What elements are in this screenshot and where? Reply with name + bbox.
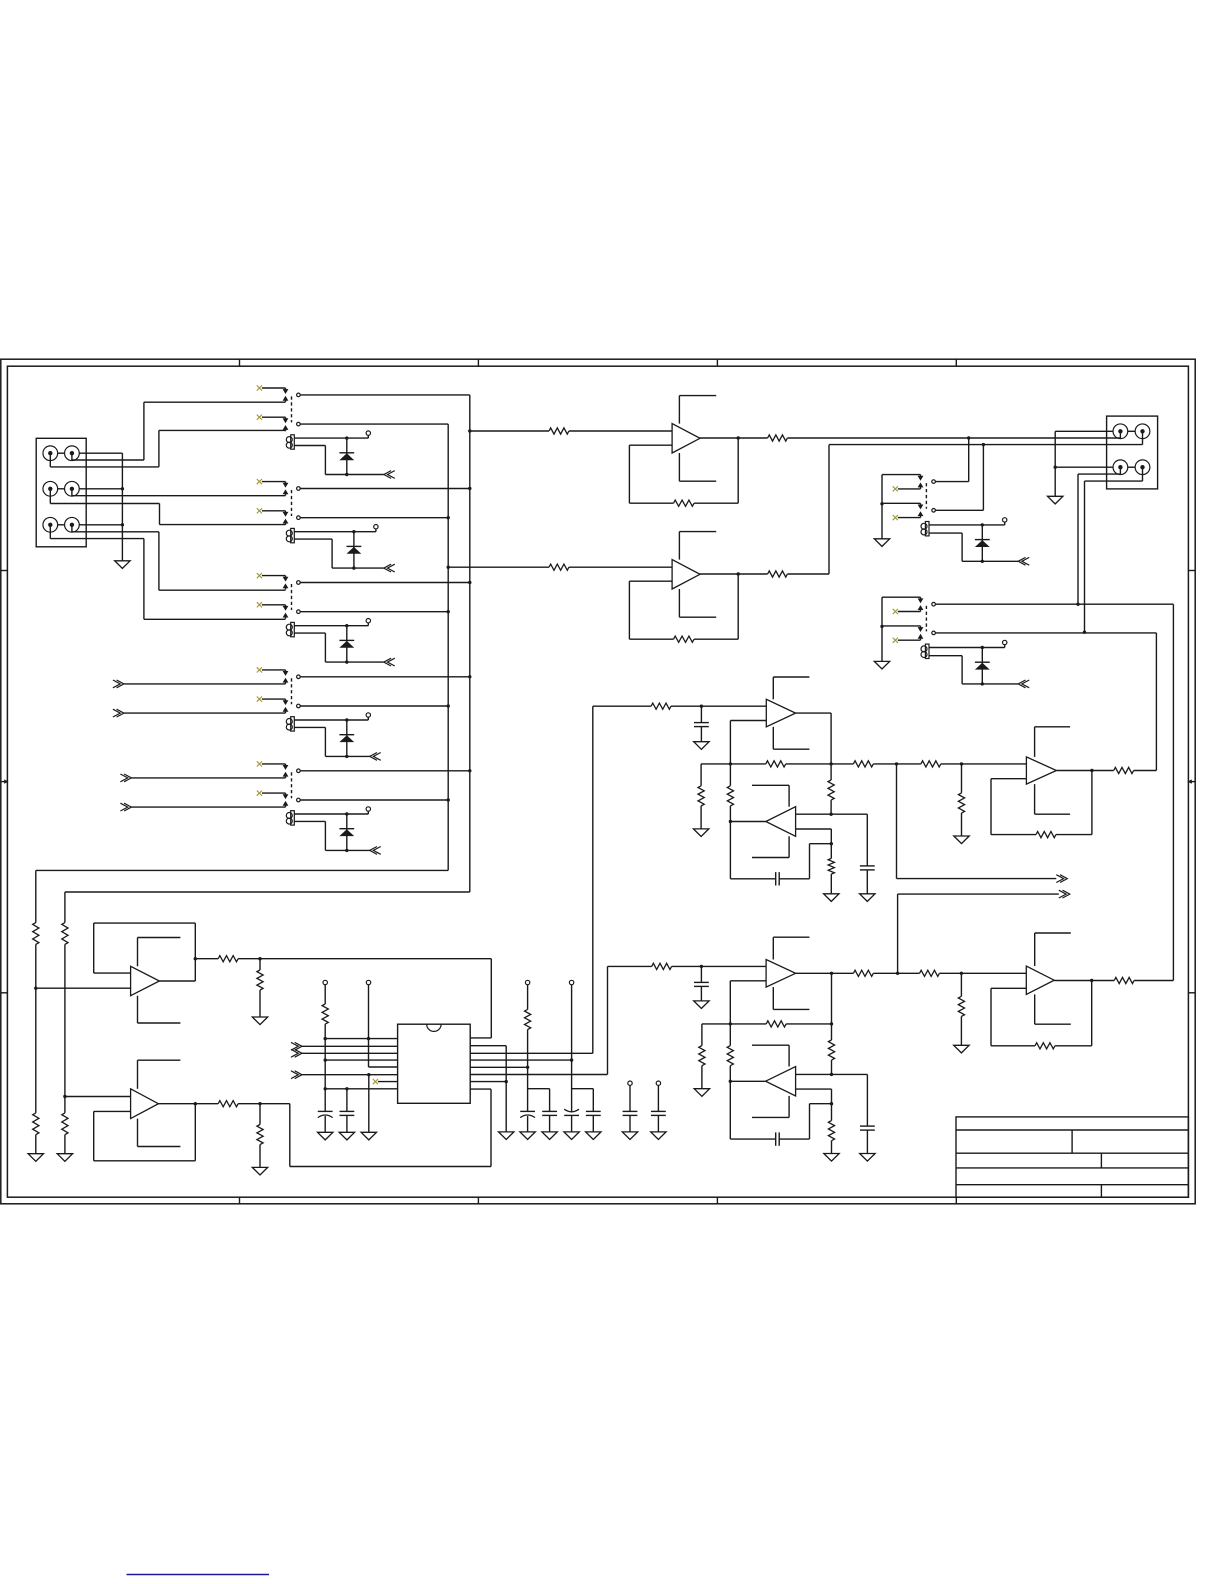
connector J2 body — [1107, 416, 1158, 489]
capacitor C rail L1 — [318, 1111, 333, 1132]
resistor R-f1 mid leg — [828, 764, 834, 816]
wire K5 c1 to bus A — [300, 769, 471, 772]
U4A feedback loop — [991, 769, 1094, 835]
relay K6 contact 1 common — [932, 480, 936, 484]
relay K7 contact 1 arrows — [918, 598, 924, 611]
no-connect X mark K4 contact 2 — [257, 697, 286, 702]
port >> upper out A — [897, 764, 1068, 883]
relay K7 contact 1 common — [932, 602, 936, 606]
connector J1 jack pair row 1 — [43, 446, 79, 461]
U4A power stub bottom — [1035, 784, 1071, 814]
wire U6A out to bus — [1134, 980, 1173, 982]
resistor R-f1 shunt — [958, 764, 964, 836]
U2 power stub top — [679, 532, 716, 560]
resistor R-U8 out — [218, 1101, 238, 1107]
no-connect X mark K6 contact 2 — [893, 515, 921, 520]
capacitor C5 — [623, 1111, 638, 1132]
U6A feedback loop — [991, 979, 1093, 1046]
U7 feedback loop — [94, 923, 197, 981]
diode D1 — [339, 438, 354, 474]
resistor R-f2 mid leg — [828, 1024, 834, 1076]
wire K2 c2 to bus B — [300, 516, 450, 519]
wire J1 row3 ring feed — [50, 525, 285, 620]
hyperlink underline — [127, 1574, 270, 1576]
U8 power stub top — [138, 1060, 181, 1089]
lower filter node row — [702, 1023, 832, 1025]
wire K6 coil top — [929, 522, 1005, 527]
wire J2 row2 left out — [1076, 467, 1120, 606]
resistor R-f1 c — [921, 761, 941, 767]
ground symbol K6 bus — [874, 539, 889, 547]
wire K1 c1 to bus A — [300, 394, 470, 396]
port >> upper out B — [898, 890, 1070, 973]
relay K2 contact 1 common — [297, 487, 301, 491]
wire IC r1 — [470, 1037, 491, 1039]
frame centre arrow left — [1, 779, 9, 783]
ground symbol C5 — [622, 1132, 637, 1140]
resistor R-U1 fb — [674, 500, 695, 506]
capacitor C3 decouple — [564, 1109, 579, 1132]
capacitor C6 — [651, 1111, 666, 1132]
relay K6 ganged link dashed — [925, 483, 927, 509]
frame centre arrow right — [1187, 779, 1195, 783]
wire IC r8 — [470, 1088, 491, 1090]
bus B vertical — [447, 424, 450, 870]
resistor R-f2 b — [853, 970, 873, 976]
ground symbol f1 shunt — [954, 836, 969, 844]
relay K7 contact 2 common — [932, 631, 936, 635]
wire IC r4 — [470, 1058, 573, 1061]
relay K1 contact 2 common — [297, 422, 301, 426]
no-connect X mark K3 contact 1 — [257, 573, 286, 578]
resistor R-f1 in — [651, 703, 671, 709]
port >> IC p2 — [291, 1042, 398, 1050]
wire J1 row1 to ground bus — [79, 452, 122, 454]
net U2-out to J2 — [787, 443, 1142, 574]
U7 power stub bottom — [138, 996, 181, 1023]
frame zone tick marks — [1, 359, 1195, 1204]
ground symbol K7 bus — [874, 661, 889, 669]
resistor R-U6A out — [1114, 977, 1134, 983]
terminal rail L1 — [323, 980, 327, 1004]
wire IC r7 — [470, 1081, 506, 1083]
wire K7 contact 2 feed — [882, 626, 921, 629]
port >> K5 c2 input — [120, 803, 285, 811]
ground symbol rail L2 — [361, 1132, 376, 1140]
diode D6 — [975, 525, 990, 561]
ground symbol C-f1 — [694, 742, 709, 750]
op-amp U7 — [131, 966, 160, 995]
bus A route to lower left — [65, 892, 470, 923]
relay coil K7 — [921, 644, 929, 658]
wire U3A out — [796, 713, 833, 766]
U2 power stub bottom — [679, 589, 716, 617]
U8 power stub bottom — [138, 1119, 181, 1147]
U8 feedback loop — [94, 1102, 197, 1161]
no-connect X IC p7 — [373, 1079, 398, 1084]
wire U8 out — [158, 1103, 218, 1105]
wire bus B to U2 — [448, 566, 549, 568]
wire J1 row1 tip feed — [72, 402, 286, 460]
wire to U7 +in — [36, 987, 131, 989]
wire to f2 opA +in — [672, 965, 767, 968]
resistor R rail R1 — [525, 1009, 531, 1029]
K7 input bus — [880, 597, 883, 661]
wire J2 row1 stem left — [1119, 431, 1121, 438]
wire IC p4 — [324, 1058, 398, 1061]
U3A power stub bottom — [773, 727, 809, 749]
wire J1 row2 tip feed — [72, 489, 286, 496]
relay coil K4 — [286, 717, 294, 731]
relay K4 contact 1 common — [297, 675, 301, 679]
wire K5 c2 to bus B — [300, 798, 450, 801]
wire to U8 +in — [65, 1096, 131, 1098]
no-connect X mark K1 contact 2 — [257, 415, 286, 420]
op-amp U3B — [766, 807, 796, 837]
wire U4A out to bus — [1134, 770, 1157, 772]
op-amp U5B — [766, 1067, 796, 1096]
net U7 to IC pin1 — [260, 959, 491, 1038]
port << K3 coil- — [384, 658, 395, 666]
wire IC p6 riser to lower filter — [608, 966, 652, 1074]
wire K4 coil top — [294, 717, 368, 722]
relay K3 contact 1 arrows — [283, 577, 289, 590]
wire to f1 opA +in — [671, 705, 766, 708]
wire IC p1 (Vdd) — [324, 1037, 398, 1040]
wire IC r3 — [470, 1052, 593, 1054]
rail L1 vertical — [324, 1024, 326, 1111]
upper filter node row — [701, 762, 1026, 765]
wire K3 coil bottom — [294, 633, 384, 664]
ground symbol C-f2 +node — [860, 1154, 875, 1162]
resistor R-f2 tip leg — [727, 1024, 733, 1081]
ground symbol U7 shunt — [252, 1017, 267, 1025]
diode D2 — [347, 532, 362, 568]
port << K7 coil- — [1018, 680, 1029, 688]
port << K4 coil- — [370, 753, 381, 761]
port >> K4 c2 input — [113, 709, 286, 717]
wire f2 out-row link — [830, 973, 833, 1025]
resistor R-U7 shunt — [257, 959, 263, 1017]
wire bus A to U1 — [470, 430, 549, 432]
wire K6 c1 out — [935, 438, 968, 482]
U4A power stub top — [1035, 727, 1071, 757]
diode D5 — [339, 814, 354, 850]
U1 feedback loop — [629, 436, 740, 503]
port << K6 coil- — [1018, 557, 1029, 565]
resistor R-f1 a — [766, 761, 786, 767]
op-amp U6A — [1026, 966, 1054, 994]
bus B route to lower left — [36, 870, 448, 922]
relay K1 contact 2 arrows — [283, 418, 289, 431]
ground symbol f2 shunt — [954, 1045, 969, 1053]
terminal K5 coil+ — [366, 807, 370, 811]
no-connect X mark K7 contact 2 — [893, 638, 921, 643]
resistor R-U6A fb — [1035, 1043, 1055, 1049]
relay coil K2 — [286, 528, 294, 542]
U5A power stub bottom — [773, 987, 809, 1009]
U2 feedback loop — [629, 572, 740, 639]
wire U2 output — [700, 573, 768, 575]
wire K4 c1 to bus A — [300, 675, 471, 678]
wire J2 row2 ring bus — [1055, 466, 1113, 468]
wire J1 row1 ring feed — [50, 430, 285, 467]
ground symbol f2 left — [694, 1089, 709, 1097]
ground symbol bus B — [28, 1154, 43, 1162]
rail L2 ground leg — [368, 1075, 370, 1133]
connector J1 body — [36, 438, 86, 547]
wire J1 row3 to ground bus — [79, 524, 122, 526]
relay K6 contact 2 common — [932, 509, 936, 513]
wire U3B tip — [729, 820, 766, 823]
terminal K1 coil+ — [366, 431, 370, 435]
U3B power stub bottom — [752, 836, 789, 857]
wire K7 contact 1 feed — [882, 597, 921, 600]
wire J2 row1 stem right — [1142, 431, 1144, 444]
wire J2 row1 ring to bus — [1055, 430, 1113, 432]
connector J2 jack pair row 1 — [1113, 424, 1150, 439]
bus A vertical — [468, 395, 471, 892]
no-connect X mark K6 contact 1 — [893, 486, 921, 491]
port << K1 coil- — [384, 471, 395, 479]
wire K7 coil top — [929, 645, 1005, 650]
wire U1 output — [700, 437, 768, 439]
diode D4 — [339, 720, 354, 756]
capacitor C-f1 in — [694, 706, 709, 742]
relay K5 ganged link dashed — [291, 772, 293, 798]
resistor R-U2 out — [768, 571, 788, 577]
relay K7 ganged link dashed — [925, 606, 927, 632]
relay K3 contact 2 arrows — [283, 606, 289, 619]
wire K7 c1 out — [935, 603, 1173, 605]
capacitor C-f2 in — [694, 966, 709, 1001]
connector J1 jack pair row 2 — [43, 481, 79, 496]
ground symbol rail L1 — [318, 1132, 333, 1140]
wire IC r2 — [470, 1045, 506, 1047]
resistor R-U1 in — [549, 428, 569, 434]
terminal K7 coil+ — [1003, 640, 1007, 644]
op-amp U1 — [672, 424, 700, 453]
relay K3 ganged link dashed — [291, 584, 293, 610]
U7 power stub top — [138, 938, 181, 967]
relay coil K6 — [921, 522, 929, 536]
relay K2 ganged link dashed — [291, 490, 293, 516]
resistor R-U4A fb — [1036, 832, 1056, 838]
ground symbol f1 left — [693, 829, 708, 837]
J2 ground bus — [1054, 431, 1057, 496]
resistor R-f2 -leg — [828, 1104, 834, 1154]
terminal rail L2 — [366, 980, 370, 1067]
capacitor C1 decouple — [520, 1111, 535, 1132]
resistor R-U2 fb — [674, 636, 695, 642]
ground symbol J2 — [1048, 496, 1063, 504]
wire K6 c2 out — [935, 445, 983, 511]
wire U7 node — [238, 957, 262, 960]
wire K7 coil bottom — [929, 656, 1018, 686]
resistor R-U1 out — [768, 435, 788, 441]
bus A lower leg — [62, 923, 68, 1154]
relay K1 contact 1 common — [297, 393, 301, 397]
relay K5 contact 2 arrows — [283, 794, 289, 807]
op-amp U3A — [766, 699, 795, 727]
wire IC p8 — [324, 1087, 398, 1090]
port >> K5 c1 input — [120, 774, 285, 782]
terminal rail R2 — [569, 980, 593, 1111]
wire U3B -in — [796, 829, 833, 845]
relay coil K1 — [286, 435, 294, 449]
wire J2 row2 right out — [1083, 467, 1143, 634]
op-amp U8 — [131, 1089, 159, 1119]
capacitor C-f2 +node — [860, 1074, 875, 1153]
wire U5B +in — [796, 1073, 868, 1075]
relay K4 ganged link dashed — [291, 678, 293, 704]
wire K5 coil bottom — [294, 821, 369, 852]
capacitor C p8 — [340, 1089, 355, 1133]
relay K2 contact 2 arrows — [283, 512, 289, 525]
capacitor C-f1 +node — [860, 814, 875, 894]
wire U7 out — [195, 958, 218, 960]
ground symbol U8 shunt — [252, 1167, 267, 1175]
wire K4 c2 to bus B — [300, 704, 450, 707]
wire IC p5 — [369, 1066, 398, 1068]
wire U5A out — [796, 972, 964, 975]
terminal rail R1 — [525, 980, 529, 1009]
ground symbol C3 — [564, 1132, 579, 1140]
U5B power stub top — [752, 1045, 789, 1066]
bus right inner — [1155, 633, 1157, 771]
ground symbol C2 — [542, 1132, 557, 1140]
terminal K3 coil+ — [366, 619, 370, 623]
resistor R-f1 b — [853, 761, 873, 767]
capacitor C-f2 fb — [730, 1081, 831, 1146]
relay K2 contact 2 common — [297, 516, 301, 520]
diode D7 — [975, 648, 990, 684]
no-connect X mark K5 contact 2 — [257, 791, 286, 796]
resistor R rail L1 — [322, 1004, 328, 1024]
wire IC r6 — [470, 1074, 607, 1076]
wire U5B -in — [796, 1089, 834, 1105]
wire K1 coil top — [294, 435, 368, 440]
rail r2 ground leg — [505, 1046, 508, 1132]
relay K5 contact 1 common — [297, 769, 301, 773]
net U8 to IC pin8 — [290, 1089, 491, 1166]
wire R to U2 +in — [569, 566, 672, 568]
resistor R-U4A out — [1114, 767, 1134, 773]
relay K3 contact 1 common — [297, 581, 301, 585]
wire K6 contact 2 feed — [882, 503, 921, 506]
U6A power stub top — [1035, 933, 1071, 966]
ground symbol J1 bus — [115, 561, 130, 569]
no-connect X mark K1 contact 1 — [257, 385, 286, 390]
port << K5 coil- — [370, 847, 381, 855]
connector J2 jack pair row 2 — [1113, 460, 1150, 475]
wire R to U1 +in — [569, 430, 672, 432]
wire K3 coil top — [294, 623, 368, 628]
wire K3 c2 to bus B — [300, 610, 450, 613]
resistor R-U2 in — [549, 564, 569, 570]
no-connect X mark K2 contact 2 — [257, 508, 286, 513]
terminal K4 coil+ — [366, 713, 370, 717]
wire K2 coil bottom — [294, 539, 384, 570]
resistor R-f1 tip leg — [727, 764, 733, 822]
wire K6 contact 1 feed — [882, 475, 921, 478]
resistor R-f1 gnd leg — [698, 764, 704, 829]
wire K4 coil bottom — [294, 727, 369, 758]
wire K2 c1 to bus A — [300, 487, 471, 490]
ground symbol C p8 — [339, 1132, 354, 1140]
wire U8 node — [238, 1102, 290, 1105]
terminal K2 coil+ — [374, 525, 378, 529]
U1 power stub top — [679, 396, 716, 424]
wire K6 coil bottom — [929, 533, 1018, 563]
wire f2 out mid — [873, 972, 919, 974]
diode D3 — [339, 626, 354, 662]
bus right outer — [1172, 604, 1174, 980]
resistor R-f2 gnd leg — [699, 1024, 705, 1089]
wire K3 c1 to bus A — [300, 581, 471, 584]
resistor R-U8 shunt — [257, 1104, 263, 1168]
wire K7 c2 out — [935, 632, 1156, 634]
IC U9 body — [398, 1024, 471, 1103]
terminal C5 — [628, 1081, 632, 1111]
drawing frame inner border — [7, 366, 1188, 1197]
ground symbol C-f1 +node — [860, 894, 875, 902]
wire K2 coil top — [294, 529, 376, 534]
wire U3B +in — [796, 813, 868, 815]
resistor R-f2 c — [920, 970, 940, 976]
rail R1 vertical — [528, 1030, 550, 1112]
terminal K6 coil+ — [1003, 518, 1007, 522]
relay K6 contact 1 arrows — [918, 476, 924, 489]
relay coil K5 — [286, 811, 294, 825]
relay K7 contact 2 arrows — [918, 627, 924, 640]
relay K3 contact 2 common — [297, 610, 301, 614]
ground symbol bus A — [57, 1154, 72, 1162]
ground symbol C4 — [586, 1132, 601, 1140]
relay K4 contact 2 common — [297, 704, 301, 708]
no-connect X mark K3 contact 2 — [257, 602, 286, 607]
resistor R-f2 shunt — [958, 973, 964, 1045]
port << K2 coil- — [384, 564, 395, 572]
relay K5 contact 2 common — [297, 798, 301, 802]
ground symbol r2 — [499, 1132, 514, 1140]
relay K4 contact 1 arrows — [283, 671, 289, 684]
wire IC r5 — [470, 1066, 529, 1069]
resistor R-f2 a — [766, 1021, 786, 1027]
ground symbol f2 -leg — [824, 1154, 839, 1162]
op-amp U5A — [766, 960, 796, 988]
ground symbol C-f2 — [694, 1001, 709, 1009]
wire U5A -in riser — [729, 981, 767, 1026]
U3B power stub top — [752, 785, 789, 806]
drawing frame outer border — [1, 359, 1195, 1204]
ground bus wire — [121, 453, 124, 561]
wire U4A out — [1056, 770, 1113, 772]
ground symbol C1 — [520, 1132, 535, 1140]
wire K5 coil top — [294, 811, 368, 816]
net U1-out to J2 — [787, 436, 1120, 439]
relay K1 contact 1 arrows — [283, 389, 289, 402]
capacitor C4 decouple — [586, 1089, 601, 1132]
ground symbol f1 -leg — [824, 894, 839, 902]
wire U3A -in riser — [729, 721, 767, 766]
wire K1 c2 to bus B — [300, 423, 448, 425]
wire K1 coil bottom — [294, 446, 384, 477]
port >> IC p6 — [291, 1071, 398, 1079]
capacitor C2 decouple — [542, 1089, 557, 1132]
U5B power stub bottom — [752, 1096, 789, 1118]
no-connect X mark K7 contact 1 — [893, 609, 921, 614]
